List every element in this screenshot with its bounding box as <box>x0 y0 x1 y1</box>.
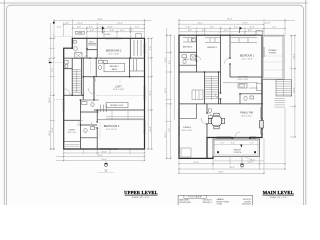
svg-text:13'-6": 13'-6" <box>165 57 167 63</box>
svg-text:PORCH: PORCH <box>234 152 242 154</box>
svg-text:12'-4": 12'-4" <box>77 23 83 25</box>
svg-text:BEDROOM 3: BEDROOM 3 <box>104 124 120 128</box>
svg-text:TOTAL: TOTAL <box>217 203 222 205</box>
svg-text:9'-2": 9'-2" <box>150 46 152 50</box>
svg-text:28'-0": 28'-0" <box>218 172 224 174</box>
svg-text:SCALE: 1/4" = 1'-0": SCALE: 1/4" = 1'-0" <box>132 196 150 199</box>
svg-text:BEDRM 3: BEDRM 3 <box>207 47 217 49</box>
svg-text:9'-6": 9'-6" <box>52 68 54 72</box>
svg-text:PORCH: PORCH <box>269 53 277 55</box>
svg-text:12'-0" x 13'-6": 12'-0" x 13'-6" <box>241 58 252 60</box>
svg-text:UPPER LEVEL: UPPER LEVEL <box>179 202 191 204</box>
svg-text:LINEN: LINEN <box>77 33 83 35</box>
svg-text:1086 SQ.FT.: 1086 SQ.FT. <box>203 202 213 204</box>
svg-text:10'-8": 10'-8" <box>107 27 113 29</box>
svg-text:BEDROOM 1: BEDROOM 1 <box>240 55 255 58</box>
svg-text:6'-8": 6'-8" <box>110 30 114 32</box>
svg-text:4'-0": 4'-0" <box>202 30 206 32</box>
svg-text:18'-6": 18'-6" <box>49 97 51 103</box>
svg-text:DINING: DINING <box>183 127 191 129</box>
svg-text:6'-8" x 9'-0": 6'-8" x 9'-0" <box>68 132 77 134</box>
svg-text:19'-4": 19'-4" <box>117 23 123 25</box>
svg-text:13'-0": 13'-0" <box>150 126 152 132</box>
svg-text:FAMILY RM: FAMILY RM <box>240 112 253 115</box>
svg-text:12'-0": 12'-0" <box>52 127 54 133</box>
svg-text:31'-8": 31'-8" <box>97 19 103 21</box>
svg-text:BEDRM 2: BEDRM 2 <box>110 66 120 68</box>
svg-text:2604 SQ.FT.: 2604 SQ.FT. <box>242 204 252 205</box>
svg-text:10'-6": 10'-6" <box>265 22 271 24</box>
svg-text:15'-0": 15'-0" <box>293 87 295 93</box>
svg-text:20'-0": 20'-0" <box>97 155 103 157</box>
svg-text:12'-6": 12'-6" <box>150 90 152 96</box>
svg-text:8'-0": 8'-0" <box>231 143 235 145</box>
svg-text:9'-2": 9'-2" <box>224 30 228 32</box>
svg-text:SCALE: 1/4" = 1'-0": SCALE: 1/4" = 1'-0" <box>270 196 288 199</box>
svg-text:35'-4": 35'-4" <box>227 19 233 21</box>
svg-text:9'-0": 9'-0" <box>169 128 171 132</box>
svg-text:7'-0": 7'-0" <box>220 143 224 145</box>
svg-text:15'-6": 15'-6" <box>247 162 253 164</box>
svg-text:11'-4": 11'-4" <box>193 162 198 164</box>
svg-text:11'-2" x 11'-0": 11'-2" x 11'-0" <box>106 129 117 131</box>
svg-text:4'-0": 4'-0" <box>120 30 124 32</box>
svg-text:FOOTAGE: FOOTAGE <box>188 196 202 199</box>
svg-text:6'-4": 6'-4" <box>188 30 192 32</box>
svg-text:2x6 WALL: 2x6 WALL <box>103 33 111 36</box>
svg-text:FRONT: FRONT <box>234 149 242 151</box>
svg-text:15'-6" x 14'-2": 15'-6" x 14'-2" <box>241 115 252 117</box>
svg-text:PRIVATE: PRIVATE <box>268 49 277 52</box>
svg-text:5'-8": 5'-8" <box>65 23 69 25</box>
svg-text:MAIN LEVEL: MAIN LEVEL <box>179 199 189 202</box>
svg-text:UPPER LEVEL: UPPER LEVEL <box>124 190 158 195</box>
svg-text:10'-2": 10'-2" <box>293 53 295 59</box>
svg-text:LOFT: LOFT <box>115 84 122 88</box>
svg-text:12'-4" x 13'-6": 12'-4" x 13'-6" <box>113 89 124 91</box>
svg-text:W.I.C.: W.I.C. <box>89 42 95 44</box>
svg-text:11'-0" x 12'-6": 11'-0" x 12'-6" <box>108 53 119 55</box>
svg-text:BATH: BATH <box>183 58 189 61</box>
svg-text:10'-4": 10'-4" <box>49 130 51 136</box>
svg-text:8'-0": 8'-0" <box>210 27 214 29</box>
svg-text:BEDRM 2: BEDRM 2 <box>183 47 193 49</box>
svg-text:BEDROOM 2: BEDROOM 2 <box>106 49 122 53</box>
svg-text:10'-0" x 12'-0": 10'-0" x 12'-0" <box>181 130 192 132</box>
svg-text:11'-4": 11'-4" <box>249 27 254 29</box>
svg-text:4'-0": 4'-0" <box>104 169 108 171</box>
svg-text:6'-2": 6'-2" <box>234 27 238 29</box>
svg-text:31'-8": 31'-8" <box>101 151 107 153</box>
svg-text:14'-2": 14'-2" <box>197 22 203 24</box>
svg-text:8'-6": 8'-6" <box>248 30 252 32</box>
svg-text:MAIN LEVEL: MAIN LEVEL <box>263 190 294 195</box>
svg-text:7'-0": 7'-0" <box>250 143 254 145</box>
svg-text:BEDRM 3 CLST: BEDRM 3 CLST <box>110 105 124 107</box>
svg-text:4'-6": 4'-6" <box>90 30 94 32</box>
svg-text:8'-2": 8'-2" <box>169 60 171 64</box>
svg-text:5'-0": 5'-0" <box>77 27 81 29</box>
svg-text:10'-6" x 12'-0": 10'-6" x 12'-0" <box>237 79 248 81</box>
svg-text:BATH: BATH <box>112 68 118 71</box>
svg-text:6'-2": 6'-2" <box>89 27 93 29</box>
svg-text:16'-4": 16'-4" <box>165 132 167 138</box>
svg-text:12'-2": 12'-2" <box>165 87 167 93</box>
svg-text:7'-0": 7'-0" <box>272 27 276 29</box>
svg-text:17'-8": 17'-8" <box>242 22 248 24</box>
svg-text:41'-4": 41'-4" <box>101 159 107 161</box>
svg-text:35'-4": 35'-4" <box>229 167 235 169</box>
svg-text:7'-0": 7'-0" <box>135 27 139 29</box>
svg-text:3'-0": 3'-0" <box>57 27 61 29</box>
svg-text:5'-10": 5'-10" <box>185 27 191 29</box>
